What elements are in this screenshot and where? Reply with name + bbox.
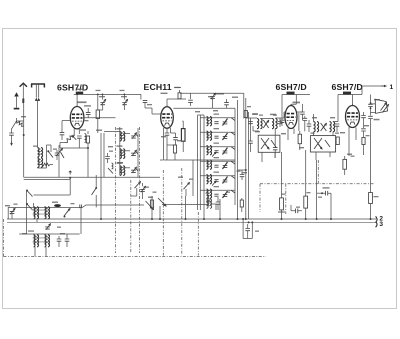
wire: coil assembly bottom rail: [19, 233, 79, 235]
trimmer cap CT1 below coil box: [140, 189, 145, 191]
resistor R6 below V2 right: [181, 121, 184, 129]
capacitor C5 row: [57, 239, 62, 241]
antenna trimmer caps: [55, 153, 60, 155]
capacitor C6: [65, 239, 70, 241]
junction on down-lead: [23, 134, 25, 136]
resistor R3 (screen) vertical: [97, 94, 99, 110]
wire: V2 cathode down: [164, 128, 176, 160]
IF transformer T-IF1 secondary coil: [272, 119, 274, 129]
oscillator coil L14 with trimmer: [200, 189, 235, 191]
earth terminal arrow: [14, 92, 19, 96]
wire: T1 plate supply line: [74, 94, 141, 99]
wire: V4 supply stub: [338, 95, 362, 115]
resistor on IF1 feeder upper: [244, 111, 247, 118]
shield can dashed left side: [115, 127, 117, 253]
coil L6 pair: [45, 207, 47, 219]
wire: left vertical of coil assembly: [26, 190, 28, 234]
coil L8 pair: [45, 235, 47, 247]
coil L1 with core: [85, 134, 87, 143]
capacitor C16 on drop: [326, 191, 328, 196]
wire: quad taps: [371, 104, 376, 113]
V3 column capacitor C13: [303, 118, 308, 120]
capacitor C1: [9, 133, 14, 135]
resistor R8 above V3 (dark): [287, 92, 295, 95]
bus line 3 (heater): [7, 221, 376, 223]
svg-text:3: 3: [379, 221, 383, 228]
capacitor on B+ drop: [188, 100, 193, 102]
wire: coil assembly top rail: [8, 207, 82, 219]
dashed shield top right section: [260, 183, 375, 185]
output trimmer arrows: [381, 103, 387, 111]
wire: V1 cathode left: [62, 121, 70, 132]
wire: V3 grid from IF1: [284, 111, 285, 113]
svg-text:ECH11: ECH11: [144, 82, 172, 92]
wire: IF1 row link: [246, 112, 284, 119]
switch arrows on bank: [212, 152, 216, 157]
RF coil L2 with trimmer: [120, 132, 122, 142]
coil L5 pair (band 1): [34, 207, 36, 219]
pot arrow mid: [135, 182, 141, 189]
junction dots on supply line: [76, 94, 78, 96]
coil block shading: [33, 210, 50, 211]
terminal 3 bracket: [376, 222, 377, 228]
wire: output feed vertical: [370, 95, 372, 104]
capacitor under rail: [80, 205, 82, 209]
wire: IF1 mid connects: [253, 126, 259, 131]
coil L7 pair (band 2): [34, 235, 36, 247]
wire: V2 grid to oscillator bank: [173, 107, 235, 109]
tube V3 6SH7 IF amplifier: [285, 106, 297, 129]
wire: IF2 down leads: [314, 132, 334, 160]
wire: drop x316.6: [316, 160, 318, 219]
wire: output to terminal 1: [362, 86, 384, 95]
antenna plug connectors: [35, 98, 40, 101]
wire: down from cathode cluster: [87, 148, 89, 177]
capacitor C17 on output feed: [368, 104, 373, 106]
chassis dashed bus bottom: [4, 256, 267, 258]
wire: V3 right rail: [298, 113, 300, 131]
svg-text:1: 1: [390, 84, 394, 91]
wire: rail extension to triode cluster: [82, 205, 144, 207]
resistor R11 above V4 (dark): [343, 92, 351, 95]
arrow tip under C1: [11, 141, 13, 145]
aux cluster under coil box: [105, 157, 110, 159]
antenna symbol: [31, 84, 45, 88]
antenna lead-in wire: [38, 101, 45, 169]
resistor R7 (osc grid leak): [173, 145, 176, 153]
IF2 secondary coil: [330, 122, 332, 132]
small text above V1: [78, 101, 87, 103]
capacitor C18 lower: [368, 116, 373, 118]
tube V2 ECH11 converter: [161, 107, 174, 129]
scan smudges (value labels): [96, 130, 102, 131]
wire: coil assembly right vertical: [80, 207, 82, 234]
resistor R1 (antenna leak): [17, 121, 24, 126]
antenna coil L0a: [38, 148, 40, 158]
wire: bank bottom to bus: [204, 199, 220, 219]
capacitor C3 (cathode bypass): [60, 133, 65, 135]
capacitor C11 (IF1 left): [240, 175, 245, 177]
svg-text:6SH7/D: 6SH7/D: [332, 82, 363, 92]
wire: drop x281.5 with resistor R14: [281, 152, 283, 198]
resistor R9: [298, 134, 301, 144]
IF2 tuned-circuit box: [310, 136, 335, 152]
resistor R12 (V4 grid): [343, 159, 347, 169]
tick after ECH11 label: [175, 86, 182, 88]
capacitor C15 to bus: [296, 209, 298, 214]
wire: V1 top lead: [76, 94, 78, 106]
resistor R17 on IF1 feeder: [240, 200, 243, 207]
wire: V1 grid line to coil box: [84, 117, 116, 119]
tick above AVC junction: [69, 171, 72, 175]
aux terminal arrow: [20, 83, 27, 87]
oscillator coil L10 with trimmer: [200, 131, 235, 133]
shield divider dashed: [130, 180, 132, 253]
wire: input down-lead: [23, 104, 25, 177]
variable capacitor CV1 (tuning gang 1): [102, 94, 104, 99]
wire: V3 plate to IF2: [297, 111, 303, 113]
capacitor C14 right of V4: [361, 116, 366, 118]
wire: V4 bottom leads: [349, 127, 356, 156]
RF coil L4 with trimmer: [120, 166, 122, 176]
wire: V3 supply stub: [282, 95, 310, 105]
wire: drop x185.5: [185, 196, 187, 219]
wire: V1 bottom leads: [74, 128, 79, 136]
oscillator coil L9 with trimmer: [200, 117, 235, 119]
svg-text:6SH7/D: 6SH7/D: [57, 83, 88, 93]
wire: taps to ground dash bus: [35, 247, 46, 257]
wire: V3 top lead: [291, 104, 296, 105]
wire: drop x193 (osc): [192, 160, 194, 196]
capacitor C10 above bus: [216, 202, 221, 204]
wire: IF1 down leads: [251, 129, 276, 163]
shield can dashed right side: [139, 127, 141, 253]
oscillator coil L12 with trimmer: [200, 160, 235, 162]
switch S2 contact row: [27, 190, 33, 197]
tube V1 6SH7 RF amplifier: [70, 107, 84, 129]
IF transformer T-IF1 primary coil: [250, 118, 252, 129]
antenna band switch: [48, 151, 53, 158]
terminal 2 bracket: [376, 216, 378, 222]
dashed riser at 318.3: [317, 160, 319, 184]
wire: V3 cathode/screen drops: [288, 129, 294, 141]
capacitor C7 below V2: [166, 128, 168, 133]
IF1 trimmer X: [263, 120, 268, 128]
wire: osc section horizontal link: [160, 159, 235, 161]
capacitor C14b: [361, 129, 366, 131]
IF2 primary coil: [313, 114, 315, 122]
IF2 trimmer X: [321, 123, 327, 131]
trimmer CT2 at far left: [10, 211, 15, 213]
shield dashed riser C: [197, 212, 199, 256]
shield dashed riser A: [162, 170, 164, 256]
IF2 caps beside coils: [307, 124, 312, 126]
wire: drop x371 with resistor R16: [370, 140, 372, 193]
bus line 2 (HT): [7, 218, 376, 220]
wire: V2 left (signal grid from RF): [145, 103, 161, 114]
wire: osc bank top connect: [203, 115, 205, 118]
antenna coil L0b: [38, 158, 40, 168]
scan smudges extra: [253, 113, 258, 114]
dashed riser at 285.8: [285, 184, 287, 214]
wire: stub to R1: [17, 120, 24, 122]
resistor R5 above V2: [178, 93, 181, 99]
wire: osc bank left rails: [198, 108, 236, 210]
antenna coil secondary: [44, 145, 51, 168]
V3 right component column: capacitor C12: [302, 104, 304, 112]
output coil quad: [375, 99, 387, 113]
wire: IF1 feeders: [238, 98, 249, 219]
volume pot arrow: [58, 145, 60, 177]
oscillator bottom coil row: [207, 199, 209, 208]
below-bus decoupler: [243, 219, 252, 239]
IF1 box trimmer X: [261, 138, 269, 149]
capacitor above osc bank: [224, 103, 229, 105]
capacitor C8: [173, 138, 178, 140]
switch S2 second contact: [27, 204, 33, 211]
wire: coil box vertical feeders: [101, 127, 138, 219]
resistor R4 with cap cluster: [86, 136, 89, 143]
wire: T1 area drops to bus: [100, 218, 102, 220]
svg-text:6SH7/D: 6SH7/D: [276, 82, 307, 92]
arrow terminal 1: [381, 85, 386, 87]
wire: drops near 152-160 to bus: [151, 218, 153, 220]
shield dashed riser B: [181, 168, 183, 256]
wavechange switch S1a: [95, 175, 97, 188]
padder trimmer CT3: [45, 227, 50, 229]
resistor R1b horizontal zigzag: [42, 163, 50, 166]
wire: osc bank third rail: [203, 118, 205, 205]
potentiometer arrow (cathode bias): [65, 135, 74, 143]
capacitor C9 above bus: [206, 199, 211, 201]
wire: AVC line (double): [24, 177, 160, 179]
IF2 box trimmer X: [314, 138, 322, 149]
variable capacitor CV2: [123, 94, 125, 99]
wire: B+ line middle: [180, 93, 244, 118]
IF1 tuned-circuit box: [258, 135, 280, 152]
oscillator coil L13 with trimmer: [200, 175, 235, 177]
junction on AVC line: [69, 177, 71, 179]
resistor R13: [362, 138, 365, 145]
resistor R2 (plate stopper, dark block): [76, 92, 83, 95]
wire: triode cluster to caps link: [162, 204, 209, 206]
wire: V2 top lead: [167, 99, 186, 107]
wire: branch down from AVC junction: [69, 178, 71, 195]
wire: drop x167 below V2: [166, 145, 168, 160]
tube V4 6SH7 output IF: [346, 106, 360, 128]
wire: drop x305.7 with resistor R15: [305, 150, 307, 196]
RF coil L3 with trimmer: [120, 149, 122, 159]
potentiometer in shield (osc padder): [184, 183, 190, 190]
oscillator coil L11 with trimmer: [200, 146, 235, 148]
capacitor left of V3: [280, 120, 285, 122]
ECH11 triode components above bus: [151, 196, 153, 219]
capacitor C4: [77, 136, 82, 138]
chassis dashed left riser: [3, 219, 5, 257]
trimmer above osc bank: [210, 96, 215, 98]
iron core blob: [54, 204, 61, 207]
dashed shield left riser: [259, 184, 261, 212]
switch S2b arrows: [64, 209, 70, 217]
wire: coil box top link: [104, 131, 120, 133]
resistor R10 right of IF2 box: [336, 137, 339, 145]
capacitor C2 on grid line: [87, 115, 89, 118]
